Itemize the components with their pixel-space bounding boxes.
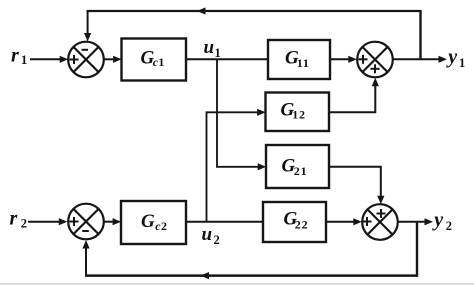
svg-text:1: 1 <box>158 55 165 69</box>
summing junction S1 <box>68 42 104 78</box>
block Gc1 <box>122 39 187 81</box>
block G21 <box>266 145 329 188</box>
svg-text:21: 21 <box>294 164 308 178</box>
svg-text:22: 22 <box>295 218 309 232</box>
sign plus (S2 left input) <box>359 55 368 64</box>
label G22 <box>284 209 309 232</box>
sign plus (S3 left input) <box>70 217 79 226</box>
wire S1 to Gc1 <box>104 56 122 63</box>
label Gc2 <box>141 211 168 233</box>
wire y2 feedback riser <box>416 222 418 277</box>
svg-text:r: r <box>11 45 19 67</box>
svg-text:1: 1 <box>459 56 465 70</box>
wire Gc1 to G11 through node u1 <box>186 58 268 60</box>
sign plus (S4 top input) <box>377 209 386 218</box>
wire y1 feedback riser <box>419 10 421 59</box>
wire G22 to S4 <box>326 218 362 225</box>
label G11 <box>285 48 310 71</box>
svg-text:1: 1 <box>215 46 221 60</box>
svg-text:1: 1 <box>21 53 27 67</box>
svg-text:2: 2 <box>446 219 452 233</box>
sign plus (S1 left input) <box>70 55 79 64</box>
sign plus (S2 bottom input) <box>371 64 380 73</box>
wire r1 to S1 <box>30 56 68 63</box>
summing junction S2 <box>357 42 393 78</box>
svg-text:2: 2 <box>214 233 220 247</box>
wire node u2 riser to G12 <box>207 109 266 222</box>
sign minus (S3 bottom input) <box>82 230 89 232</box>
wire top feedback line <box>87 7 422 14</box>
sign minus (S1 top input) <box>82 49 89 51</box>
svg-text:r: r <box>10 208 18 230</box>
svg-text:2: 2 <box>21 217 27 231</box>
scan artifact bottom edge <box>0 283 474 285</box>
block G11 <box>268 40 330 79</box>
label G12 <box>281 99 306 121</box>
svg-text:y: y <box>446 46 457 68</box>
block Gc2 <box>121 201 186 244</box>
svg-text:y: y <box>432 209 443 231</box>
wire S3 to Gc2 <box>104 218 121 225</box>
label Gc1 <box>141 48 166 70</box>
summing junction S4 <box>362 204 398 240</box>
svg-text:12: 12 <box>292 107 306 121</box>
summing junction S3 <box>68 204 104 240</box>
block G12 <box>266 93 330 132</box>
label u2 <box>202 224 220 247</box>
wire G11 to S2 <box>330 56 357 63</box>
wire feedback into S3 bottom <box>82 240 89 277</box>
wire S4 to y2 <box>398 218 433 225</box>
wire G12 to S2 bottom input <box>329 78 379 113</box>
wire node u1 riser to G21 <box>217 59 266 170</box>
block G22 <box>263 202 326 242</box>
svg-text:G: G <box>141 211 155 232</box>
label G21 <box>282 155 308 178</box>
label y1 <box>446 46 465 70</box>
wire r2 to S3 <box>28 218 67 225</box>
wire Gc2 to G22 through node u2 <box>186 221 263 223</box>
label u1 <box>204 37 221 60</box>
label r2 <box>10 208 28 231</box>
svg-text:11: 11 <box>297 56 310 70</box>
label y2 <box>432 209 452 233</box>
label r1 <box>11 45 27 68</box>
sign plus (S4 left input) <box>363 217 372 226</box>
svg-text:u: u <box>202 224 213 245</box>
wire feedback into S1 top <box>84 11 91 42</box>
wire S2 to y1 <box>393 56 447 63</box>
wire G21 to S4 top input <box>329 167 384 204</box>
svg-text:u: u <box>204 37 215 58</box>
svg-text:2: 2 <box>161 219 168 233</box>
wire bottom feedback line <box>85 272 418 279</box>
